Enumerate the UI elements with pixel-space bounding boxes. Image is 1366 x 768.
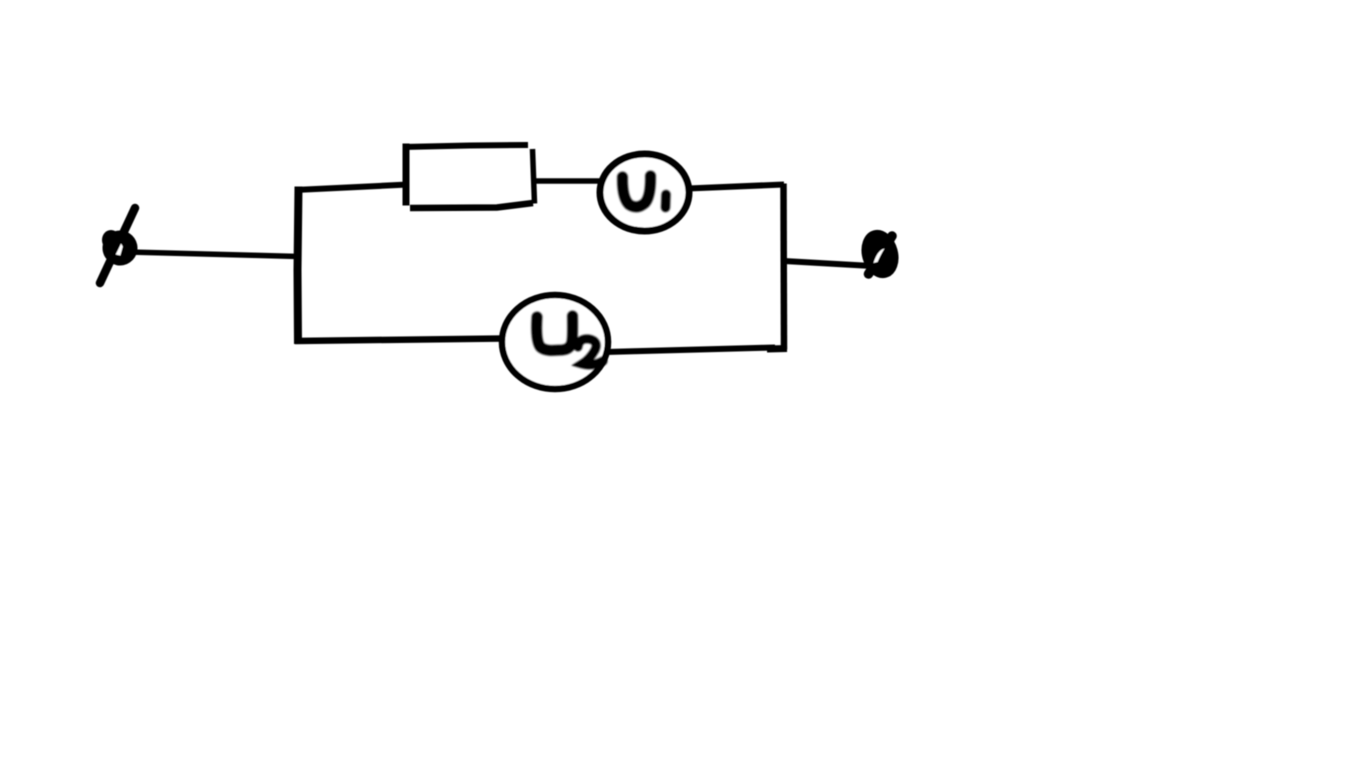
label U2 (handwritten U with subscript 2) [537,316,603,365]
wire from T1 to left node [129,252,300,257]
voltmeter U2 (circle) [502,295,608,389]
voltmeter U1 (circle) [600,154,689,231]
wire: right vertical bus [780,184,787,350]
wire: bottom branch, left segment to U2 [295,339,503,342]
wire: U2 to right bus [606,348,787,353]
resistor R (hand-drawn rectangle box) [403,144,535,209]
wire: left vertical bus (node joining both branches) [298,187,299,345]
wire: U1 to right bus [688,185,784,189]
wire: right bus to terminal T2 [784,261,872,266]
wire: top branch, left segment to resistor [295,185,408,191]
terminal T2 (right output terminal, hand-drawn "o" with slash) [861,230,900,278]
label U1 (handwritten U with subscript 1) [622,176,666,208]
terminal T1 (left input terminal, hand-drawn "o" with slash) [99,208,141,283]
wire: resistor to voltmeter U1 [534,178,602,184]
